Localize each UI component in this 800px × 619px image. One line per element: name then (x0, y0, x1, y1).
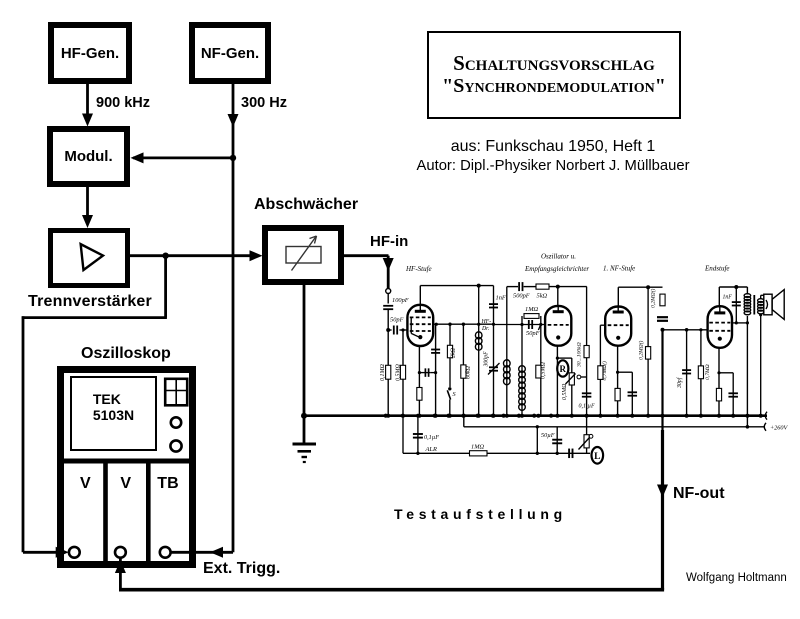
rail junction dot (477, 284, 481, 288)
bus dot (685, 414, 689, 418)
capacitor cathode bypass (424, 368, 426, 377)
svg-text:5kΩ: 5kΩ (537, 293, 548, 300)
node cathode V2 (556, 357, 559, 360)
resistor 30..100k (584, 346, 589, 358)
capacitor 50uF (552, 439, 562, 441)
bus dot (417, 414, 421, 418)
wire 1nF branch (493, 286, 495, 416)
label NF-out (673, 485, 725, 503)
resistor V4 cathode (716, 388, 721, 401)
bus end hook (765, 412, 767, 420)
resistor 1M ALR (470, 451, 488, 456)
svg-text:0,1 µF: 0,1 µF (579, 404, 595, 410)
bus dot (502, 414, 506, 418)
node grid V2 right (539, 323, 542, 326)
stage1 top rail (420, 285, 493, 287)
bus dot (384, 414, 388, 418)
node cathode V3 (616, 371, 619, 374)
node secondary bottom (759, 313, 762, 316)
bus dot (616, 414, 620, 418)
svg-text:50pF: 50pF (526, 330, 540, 337)
bus dot (661, 414, 665, 418)
node cathode V4 (717, 371, 720, 374)
node cathode (418, 371, 421, 374)
wire arrow to connector (387, 256, 390, 289)
anode wire to transformer (732, 322, 747, 324)
bus dot (646, 414, 650, 418)
block Trennverstärker (48, 228, 130, 288)
label 300 Hz (241, 95, 287, 111)
bus dot (570, 414, 574, 418)
wire bottom horizontal (119, 588, 664, 592)
bus dot (476, 414, 480, 418)
wire Abschwaecher to ground (303, 285, 306, 443)
block HF-Gen (48, 22, 132, 84)
arrowhead into Abschwaecher left edge (250, 250, 263, 261)
arrowhead into Modul top (82, 114, 93, 127)
bus dot (717, 414, 721, 418)
wire V4 anode up (718, 287, 720, 306)
wire osc coil1 branch (506, 287, 508, 416)
label Wolfgang Holtmann (686, 572, 787, 584)
bus dot (401, 414, 405, 418)
node (435, 323, 438, 326)
wire NF-Gen down to TB input (232, 84, 235, 552)
circled R (557, 360, 568, 376)
wire primary to +260V (746, 316, 748, 427)
bus dot (699, 414, 703, 418)
resistor 5k (536, 284, 549, 289)
rail dot (646, 285, 650, 289)
capacitor 0,1uF ALR (413, 433, 423, 435)
junction dot NF line (230, 155, 236, 161)
wire to cathode cap (419, 372, 430, 374)
wire left vertical to scope (22, 316, 25, 552)
ground (293, 443, 317, 446)
bus dot (598, 414, 602, 418)
bus dot (401, 414, 405, 418)
potentiometer volume (584, 435, 589, 448)
op-amp triangle in Trennverstaerker (81, 243, 104, 270)
tube V2 oscillator (545, 306, 571, 346)
arrowhead into TB input (210, 547, 223, 558)
label TB bay3 (157, 475, 178, 493)
ground bus (302, 414, 767, 417)
resistor 0,2M NFout (660, 294, 665, 306)
wire 50uF branch (556, 427, 558, 454)
svg-text:S: S (453, 391, 456, 398)
svg-text:0,7MΩ(): 0,7MΩ() (601, 361, 608, 381)
block NF-Gen (189, 22, 271, 84)
title box (427, 31, 681, 119)
svg-text:500pF: 500pF (513, 293, 530, 300)
node 2k top (448, 323, 451, 326)
wire 1nF branch (735, 287, 737, 323)
svg-text:Oszillator u.: Oszillator u. (541, 253, 576, 261)
wire to cathode pot (557, 357, 571, 359)
node anode-primary (746, 321, 749, 324)
label Testaufstellung (394, 506, 567, 522)
transformer primary winding (744, 294, 751, 298)
wire secondary to bus (760, 314, 762, 416)
circled L (592, 447, 604, 464)
node (492, 323, 495, 326)
oscilloscope input connector TB (160, 547, 171, 558)
arrowhead into Modul right edge (131, 152, 144, 163)
arrowhead up into V2 input (115, 560, 126, 573)
wire 0,5M branch stage2 (540, 325, 542, 416)
svg-text:2kΩ: 2kΩ (451, 347, 457, 358)
resistor V1 cathode (417, 388, 422, 401)
resistor 0,7M grid (598, 366, 603, 380)
svg-text:Endstufe: Endstufe (704, 265, 730, 273)
bus dot (517, 414, 521, 418)
svg-text:0,5MΩ: 0,5MΩ (562, 384, 568, 400)
wire V3 cathode down (617, 346, 619, 416)
svg-text:50pF: 50pF (390, 317, 404, 324)
wire grid node down (387, 330, 389, 416)
oscilloscope screen box (70, 376, 157, 451)
svg-text:HF-Stufe: HF-Stufe (405, 265, 432, 273)
loudspeaker (764, 294, 772, 315)
wire to cathode cap V3 (618, 371, 633, 373)
wire wiper to column (581, 376, 587, 378)
ALR line (403, 452, 590, 454)
wire 0,5M branch (402, 330, 404, 416)
svg-text:300pF: 300pF (484, 351, 490, 368)
wire +260V drop (536, 427, 538, 454)
svg-text:Empfangsgleichrichter: Empfangsgleichrichter (524, 265, 589, 273)
bus dot (505, 414, 509, 418)
resistor 2k (447, 345, 452, 358)
capacitor NFout coupling (657, 316, 668, 318)
capacitor 50pF (393, 326, 395, 335)
wire switch to bus (449, 400, 451, 416)
oscilloscope outer box (57, 366, 196, 568)
oscilloscope grid icon (165, 379, 187, 406)
svg-text:0,5MΩ: 0,5MΩ (396, 364, 402, 381)
node grid V2 left (520, 323, 523, 326)
wire Trennverstaerker to Abschwaecher (130, 254, 259, 257)
bus dot (433, 414, 437, 418)
svg-text:Dr.: Dr. (481, 326, 489, 332)
wire choke branch (478, 286, 480, 416)
wire NF-out vertical lower (661, 430, 664, 590)
wire V1 anode up (419, 286, 421, 305)
bus dot (520, 414, 524, 418)
node (735, 321, 738, 324)
label V bay2 (120, 475, 131, 493)
label Ext. Trigg. (203, 560, 280, 578)
node NF-out (661, 328, 665, 332)
pot wiper arrow (566, 374, 576, 385)
transformer secondary winding (758, 299, 764, 303)
stage2 rail left (507, 286, 518, 288)
HF input connector circle (386, 289, 391, 294)
stage4 top rail (719, 286, 747, 288)
wire anode load branch (647, 287, 649, 416)
bus dot (549, 414, 553, 418)
wire connector to 100pF (387, 294, 389, 304)
trimmer arrow (488, 363, 500, 375)
resistor 0,1M (386, 365, 391, 379)
resistor 60k (461, 365, 466, 378)
wire coupling column (586, 287, 588, 416)
bus dot (532, 414, 536, 418)
node (477, 323, 480, 326)
arrowhead NF-out (657, 485, 668, 498)
wire 0,7M branch V4 (700, 330, 702, 416)
bus dot (536, 414, 540, 418)
label V bay1 (80, 475, 91, 493)
node (416, 452, 419, 455)
wire into V1 input (23, 551, 65, 554)
attenuator symbol in Abschwaecher (286, 247, 321, 264)
oscilloscope bay divider 1 (103, 461, 108, 564)
svg-text:1MΩ: 1MΩ (471, 444, 485, 451)
label 900 kHz (96, 95, 150, 111)
capacitor screen bypass (431, 349, 440, 351)
tube V4 Endstufe (708, 306, 732, 348)
wire V3 grid left (600, 324, 605, 326)
svg-text:0,5MΩ: 0,5MΩ (541, 362, 547, 379)
oscilloscope bay divider 2 (146, 461, 151, 564)
wire osc coil2 branch (521, 325, 523, 416)
bus dot (630, 414, 634, 418)
block Modul (47, 126, 130, 187)
oscilloscope knob 2 (170, 440, 181, 451)
+260V line (464, 426, 765, 428)
capacitor V3 cathode (628, 391, 638, 393)
wiper connection circle (577, 375, 581, 379)
capacitor 0,1uF coupling (582, 392, 592, 394)
svg-text:0,2MΩ(): 0,2MΩ() (637, 340, 644, 360)
wire to 50pF (388, 329, 391, 331)
block Abschwächer (262, 225, 344, 285)
svg-text:0,1µF: 0,1µF (424, 434, 439, 441)
rail dot above V2 (556, 285, 560, 289)
inductor oscillator coil 1 (504, 360, 511, 367)
svg-text:0,2MΩ(): 0,2MΩ() (650, 288, 657, 308)
label Abschwächer (254, 196, 358, 214)
wire Modul to Trennverstaerker (86, 187, 89, 224)
wire stub to +260V line (463, 416, 465, 427)
inductor oscillator coil 2 (519, 366, 526, 373)
svg-text:1. NF-Stufe: 1. NF-Stufe (603, 265, 635, 273)
subtitle (353, 138, 753, 157)
capacitor 500pF (518, 282, 520, 291)
tube V1 HF-Stufe (407, 305, 433, 346)
transformer core (753, 295, 755, 315)
bus dot (731, 414, 735, 418)
bus dot (461, 414, 465, 418)
wire 50pF to tube V1 grid (399, 329, 407, 331)
bus dot (416, 414, 420, 418)
node (699, 328, 702, 331)
wire NF-out vertical upper (661, 330, 663, 430)
wire 30pF branch (686, 330, 688, 416)
wire to switch (449, 358, 451, 387)
rail dot (734, 285, 738, 289)
inductor HF choke (475, 332, 482, 339)
rail segment (524, 286, 536, 288)
wire NF line to Modul (133, 156, 233, 159)
wire 2k branch (449, 324, 451, 345)
arrowhead into V1 input (56, 547, 69, 558)
bus dot (745, 414, 749, 418)
wire V2 cathode down (556, 346, 558, 416)
bus dot (477, 414, 481, 418)
wire junction down (164, 256, 167, 318)
bus dot (448, 414, 452, 418)
capacitor 50pF coupling (528, 320, 530, 329)
resistor 0,5M (400, 365, 405, 379)
bus dot (759, 414, 763, 418)
wire grid leak down (599, 325, 601, 416)
bus dot (386, 414, 390, 418)
capacitor V4 cathode (728, 392, 738, 394)
svg-text:+260V: +260V (770, 424, 788, 431)
bus dot (585, 414, 589, 418)
resistor 0,2M anode (646, 347, 651, 360)
grid wire into V2 (494, 324, 547, 326)
+260V end hook (764, 423, 766, 431)
node 30pF top (685, 328, 689, 332)
svg-text:30...100kΩ: 30...100kΩ (576, 342, 582, 368)
potentiometer cathode R (569, 373, 574, 385)
bus dot (491, 414, 495, 418)
node 60k top (462, 323, 465, 326)
svg-text:0,7MΩ: 0,7MΩ (705, 364, 711, 380)
stage3 top rail (618, 286, 662, 288)
grid wire V4 (663, 329, 708, 331)
node on +260V (536, 425, 539, 428)
resistor 0,7M V4 (698, 366, 703, 379)
capacitor 1nF output (732, 301, 741, 303)
wire V4 cathode down (718, 348, 720, 416)
bus dot (446, 414, 450, 418)
wire V2 input down (119, 558, 122, 590)
svg-text:1MΩ: 1MΩ (525, 306, 539, 313)
oscilloscope knob 1 (171, 417, 181, 427)
svg-text:ALR: ALR (425, 446, 437, 453)
svg-text:0,1MΩ: 0,1MΩ (380, 364, 386, 381)
switch S (448, 387, 451, 390)
wire to volume pot (586, 416, 588, 435)
capacitor 30pF (682, 369, 691, 371)
tube V1 inner grid lead (410, 317, 412, 333)
grid wire stage1 to stage2 (433, 323, 493, 325)
svg-text:R: R (560, 364, 567, 374)
wire to transformer primary (746, 287, 748, 295)
capacitor trimmer 300pF (489, 366, 498, 368)
resistor V3 cathode (615, 388, 620, 400)
junction dot Trenn output (162, 253, 168, 259)
svg-text:60kΩ: 60kΩ (465, 365, 471, 379)
bus dot (555, 414, 559, 418)
wire screen branch down (435, 324, 437, 416)
rail segment to corner (549, 286, 587, 288)
wire left horizontal (22, 316, 167, 319)
wire V2 anode up (557, 287, 559, 306)
wire left drop to ALR line (402, 416, 404, 454)
resistor 1M grid (521, 316, 523, 325)
label Trennverstärker (28, 293, 152, 311)
svg-text:L: L (594, 452, 600, 462)
volume pot wiper (579, 438, 590, 450)
node (556, 452, 559, 455)
resistor 0,5M stage2 (536, 365, 541, 378)
tube V3 NF-Stufe (605, 307, 631, 346)
label HF-in (370, 233, 408, 250)
capacitor 1nF (489, 303, 498, 305)
svg-text:1nF: 1nF (723, 295, 733, 301)
wire to cathode cap V4 (719, 372, 733, 374)
dot on +260V line (746, 425, 750, 429)
svg-text:30pf: 30pf (676, 376, 683, 389)
bus dot (462, 414, 466, 418)
junction dot on ground bus (301, 413, 307, 419)
wire HF-Gen to Modul (86, 84, 89, 122)
bus dot (434, 414, 438, 418)
wire 0,1uF branch (417, 416, 419, 454)
capacitor ALR coupling (568, 449, 570, 459)
label Oszilloskop (81, 345, 171, 363)
wire V3 anode up (617, 287, 619, 307)
svg-text:100pF: 100pF (392, 297, 409, 304)
svg-text:HF-: HF- (481, 319, 492, 325)
wire 100pF to grid node (387, 309, 389, 330)
arrowhead into Trennverstaerker top (82, 215, 93, 228)
capacitor 100pF (383, 305, 393, 307)
node screen line (434, 371, 437, 374)
bus dot (492, 414, 496, 418)
wire TB input to NF line (171, 551, 234, 554)
wire V1 cathode down (418, 346, 420, 416)
oscilloscope input connector V2 (115, 547, 126, 558)
wire 60k branch (462, 324, 464, 416)
wire Abschwaecher output (344, 254, 389, 257)
oscilloscope divider band (62, 459, 191, 464)
svg-text:1nF: 1nF (496, 295, 506, 302)
node grid input (386, 328, 390, 332)
svg-text:50µF: 50µF (541, 432, 555, 439)
arrowhead HF-in down (383, 258, 394, 271)
node (536, 452, 539, 455)
oscilloscope input connector V1 (69, 547, 80, 558)
arrowhead on NF-Gen line (228, 114, 239, 127)
